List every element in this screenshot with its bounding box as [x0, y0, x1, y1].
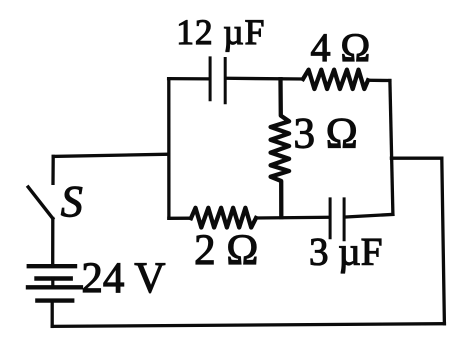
- wire switch to battery top: [51, 219, 54, 267]
- svg-text:12 µF: 12 µF: [176, 12, 265, 52]
- node left inner vertical: [167, 79, 170, 219]
- wire 12uF right plate to 4ohm zigzag: [227, 77, 303, 81]
- wire top feed (battery top to inner network left): [53, 154, 168, 156]
- wire connector right (inner box to outer right vertical): [391, 157, 441, 160]
- switch S blade: [28, 187, 53, 219]
- svg-text:24 V: 24 V: [81, 255, 165, 302]
- battery long plate 1: [29, 264, 75, 268]
- svg-text:3 Ω: 3 Ω: [294, 110, 358, 157]
- wire 2ohm to 3uF left plate: [256, 216, 329, 220]
- capacitor C2 3uF plates: [330, 199, 344, 240]
- svg-text:4 Ω: 4 Ω: [311, 25, 371, 70]
- wire top-left (corner to 12uF left plate): [169, 77, 209, 81]
- capacitor C1 12uF plates: [210, 58, 225, 103]
- wire outer right vertical: [442, 158, 445, 324]
- battery inter-cell stub: [51, 279, 54, 288]
- battery B1 24V plates: [28, 266, 81, 300]
- resistor R2 4ohm zigzag: [303, 70, 368, 89]
- wire 3uF right plate to right inner vertical: [346, 214, 393, 217]
- wire bottom-left (inner corner to 2ohm): [169, 217, 191, 220]
- svg-text:2 Ω: 2 Ω: [194, 227, 258, 274]
- resistor R3 3ohm vertical zigzag: [271, 79, 290, 217]
- battery short plate 2: [37, 276, 71, 280]
- wire outer bottom: [52, 324, 444, 327]
- battery short plate 4: [37, 298, 72, 302]
- svg-text:S: S: [61, 177, 83, 226]
- svg-text:3 µF: 3 µF: [309, 230, 382, 273]
- switch S top contact stub: [51, 156, 55, 183]
- node right inner vertical: [390, 81, 393, 215]
- battery long plate 3: [28, 285, 81, 289]
- wire battery bottom to outer bottom corner: [51, 301, 54, 327]
- resistor R1 2ohm zigzag: [191, 208, 256, 228]
- wire 4ohm to right inner corner: [368, 79, 390, 82]
